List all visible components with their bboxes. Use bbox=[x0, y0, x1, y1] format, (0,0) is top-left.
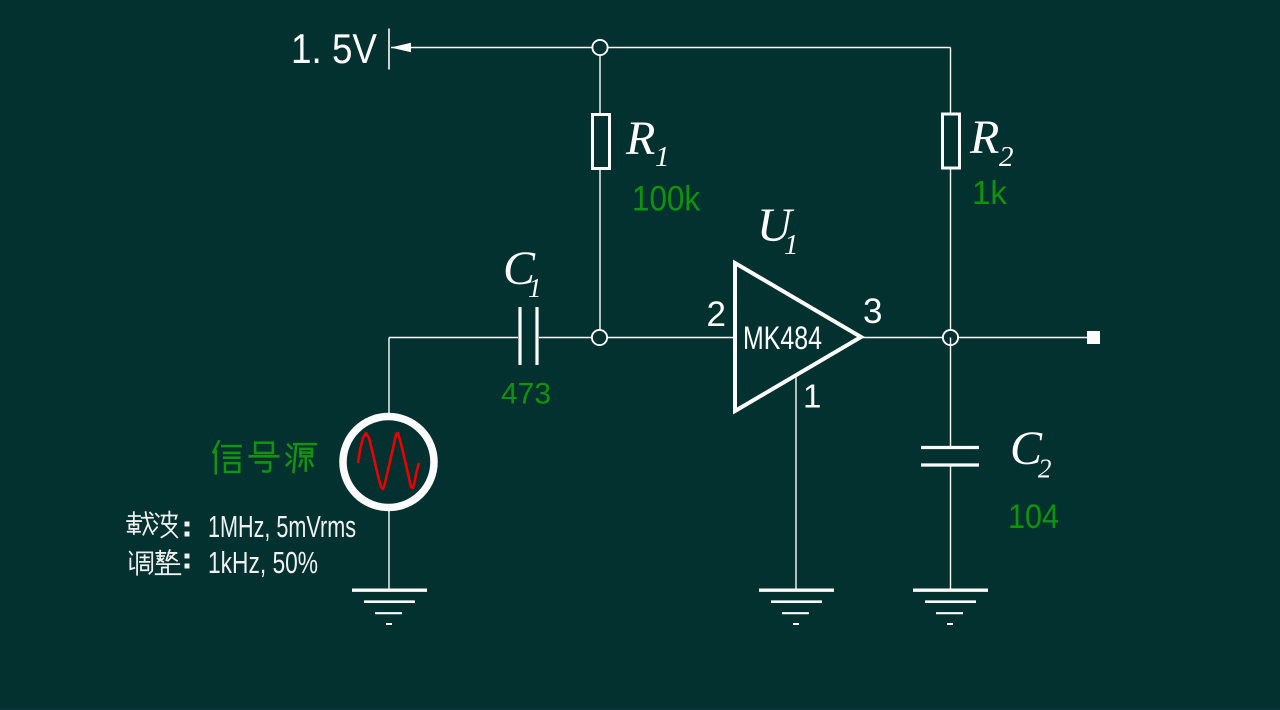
svg-text:1: 1 bbox=[784, 229, 799, 261]
wire: source bottom bbox=[388, 510, 390, 589]
svg-text:R: R bbox=[625, 112, 655, 165]
modulation text line 2: 调整：1kHz, 50% bbox=[130, 550, 181, 575]
output terminal square bbox=[1087, 331, 1100, 344]
capacitor C2 bbox=[921, 446, 979, 449]
svg-text:104: 104 bbox=[1008, 498, 1059, 536]
svg-text:3: 3 bbox=[863, 292, 882, 331]
svg-text:R: R bbox=[969, 111, 999, 164]
signal source circle bbox=[343, 417, 434, 508]
junction node at output bbox=[943, 330, 958, 345]
fullwidth colon 2 bbox=[185, 554, 190, 569]
ground (pin 1) bbox=[759, 590, 834, 624]
svg-text:1MHz, 5mVrms: 1MHz, 5mVrms bbox=[208, 509, 356, 544]
resistor R2 bbox=[943, 114, 960, 168]
resistor R1 bbox=[593, 115, 610, 169]
svg-text:473: 473 bbox=[501, 378, 551, 411]
svg-text:100k: 100k bbox=[632, 180, 700, 219]
svg-text:2: 2 bbox=[999, 141, 1014, 173]
wire: R1 bottom bbox=[599, 170, 601, 339]
power port bar bbox=[388, 29, 390, 70]
junction node at C1/R1 bbox=[592, 330, 607, 345]
svg-text:1: 1 bbox=[803, 378, 821, 415]
wire: R1 top bbox=[599, 48, 601, 114]
wire: pin 1 down bbox=[795, 375, 797, 589]
wire: source to C1 bbox=[389, 337, 518, 339]
wire: C1 to op-amp input bbox=[539, 337, 735, 339]
ground (C2) bbox=[913, 590, 988, 624]
junction node at top rail bbox=[592, 40, 607, 55]
fullwidth colon 1 bbox=[185, 522, 190, 537]
svg-text:1: 1 bbox=[655, 141, 670, 173]
svg-text:MK484: MK484 bbox=[743, 320, 822, 356]
wire: C2 bottom bbox=[950, 467, 952, 590]
power port arrow bbox=[391, 43, 412, 52]
svg-text:1. 5V: 1. 5V bbox=[291, 25, 377, 72]
svg-text:1: 1 bbox=[528, 273, 542, 303]
window bottom edge strip bbox=[0, 708, 1280, 710]
svg-text:2: 2 bbox=[1038, 454, 1052, 484]
wire: C2 top bbox=[950, 338, 952, 447]
ground (signal source) bbox=[352, 590, 427, 624]
svg-text:1kHz, 50%: 1kHz, 50% bbox=[208, 545, 318, 580]
carrier text line 1: 载波：1MHz, 5mVrms bbox=[127, 512, 177, 538]
capacitor C1 bbox=[518, 307, 521, 365]
label 信号源 (green) bbox=[213, 441, 316, 473]
wire: source top bbox=[388, 338, 390, 415]
wire: R2 top drop bbox=[950, 48, 952, 114]
svg-text:2: 2 bbox=[707, 295, 726, 334]
op-amp U1 triangle bbox=[735, 263, 861, 411]
wire: top rail bbox=[391, 47, 951, 49]
sine wave bbox=[358, 433, 419, 489]
wire: R2 bottom bbox=[950, 169, 952, 338]
wire: output bbox=[861, 337, 1087, 339]
svg-text:1k: 1k bbox=[972, 174, 1007, 211]
